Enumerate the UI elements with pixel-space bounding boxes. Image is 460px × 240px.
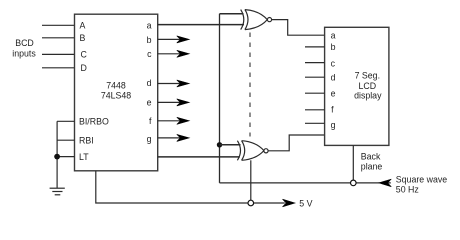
wire square wave line [220,182,391,184]
svg-text:7 Seg.: 7 Seg. [355,71,380,81]
junction dot bus to U3 [217,142,222,147]
svg-text:LT: LT [79,152,89,162]
svg-text:b: b [331,42,336,52]
wire input B [42,37,75,39]
LCD input stub d [305,76,325,78]
LCD input stub c [305,62,325,64]
svg-text:50 Hz: 50 Hz [396,184,419,194]
wire back plane [352,145,354,180]
decoder U1 7448/74LS48 [75,14,158,171]
wire output b [158,38,187,40]
svg-text:inputs: inputs [12,48,36,58]
svg-text:Back: Back [361,151,381,161]
wire output e [158,101,187,103]
arrow square wave (points left) [379,179,392,187]
LCD display DS1 [325,27,389,145]
xnor gate U3 [237,141,268,161]
ground [50,188,65,195]
wire LT [57,156,74,158]
LCD input stub e [305,92,325,94]
wire RBI [57,139,74,141]
LCD input stub b [305,46,325,48]
svg-text:b: b [147,35,152,45]
backplane bus vertical wire [219,14,221,183]
svg-text:5 V: 5 V [299,199,312,209]
wire BI/RBO [57,120,74,122]
wire 5V from decoder Vcc [96,171,285,203]
svg-text:B: B [80,33,86,43]
svg-text:C: C [81,50,88,60]
LCD input stub f [305,109,325,111]
wire bus to U2 top input [220,13,244,15]
svg-text:c: c [147,49,152,59]
svg-text:BCD: BCD [15,38,34,48]
svg-text:g: g [331,120,336,130]
label BCD inputs [12,38,36,58]
wire U3 power to 5V node [250,160,252,200]
wire input C [42,53,75,55]
svg-text:74LS48: 74LS48 [101,91,131,101]
svg-text:LCD: LCD [358,81,376,91]
svg-text:c: c [331,58,336,68]
svg-text:A: A [80,21,86,31]
svg-text:a: a [331,30,336,40]
svg-text:Square wave: Square wave [396,175,447,185]
junction dot LT node [54,154,60,160]
dashed line (implied gates b..f) [249,33,251,137]
wire ground bus vertical [56,121,58,188]
wire output f [158,120,187,122]
wire decoder to gate U3 lower input [158,156,240,158]
svg-text:D: D [81,63,87,73]
wire U2 output to LCD pin a [272,20,325,36]
svg-text:display: display [354,91,382,101]
svg-text:d: d [331,73,336,83]
wire bus to U3 top input [220,144,241,146]
svg-text:e: e [147,98,152,108]
xnor gate U2 [241,10,272,30]
svg-text:RBI: RBI [79,136,94,146]
svg-text:a: a [147,21,152,31]
svg-text:g: g [147,134,152,144]
wire decoder output a to gate U2 [158,24,244,26]
wire output d [158,83,187,85]
arrow 5V (points right) [283,199,296,207]
node backplane terminal [351,180,357,186]
LCD input stub g [305,122,325,124]
svg-text:plane: plane [361,162,383,172]
svg-text:e: e [331,89,336,99]
wire U3 output to LCD [268,135,324,151]
svg-text:BI/RBO: BI/RBO [79,117,109,127]
wire input D [42,67,75,69]
wire output g [158,137,187,139]
node 5V terminal [248,200,254,206]
wire input A [42,24,75,26]
svg-text:d: d [147,78,152,88]
wire output c [158,53,187,55]
svg-text:7448: 7448 [106,81,126,91]
